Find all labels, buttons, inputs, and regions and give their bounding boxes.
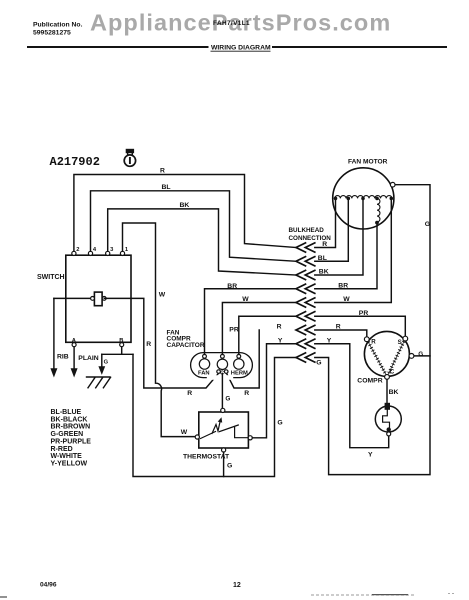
bulkhead connector pin 9 (G) bbox=[296, 353, 315, 362]
wire Y thermostat right to bulkhead pin 8 bbox=[252, 344, 296, 438]
compressor run winding bbox=[368, 342, 386, 374]
footer scan marks bbox=[311, 594, 416, 596]
svg-text:R: R bbox=[146, 341, 151, 348]
svg-text:SWITCH: SWITCH bbox=[37, 274, 65, 281]
bulkhead connector pin 8 (Y) bbox=[296, 339, 315, 348]
capacitor HERM terminal bbox=[234, 359, 244, 369]
bulkhead connector pin 5 (W) bbox=[296, 298, 315, 307]
timer/clock icon bbox=[124, 149, 135, 167]
svg-text:C: C bbox=[390, 369, 395, 376]
wire G branch to compressor shell bbox=[414, 355, 430, 357]
wire BR bulkhead pin 4 to fan motor start winding bbox=[315, 224, 377, 289]
compressor start winding bbox=[388, 341, 404, 374]
capacitor FAN terminal bbox=[199, 359, 209, 369]
compressor terminal S bbox=[403, 336, 408, 341]
wire from terminal B to ground and to G bus bbox=[102, 347, 133, 354]
svg-text:FAN: FAN bbox=[198, 370, 210, 376]
svg-text:FAH7/V1L1: FAH7/V1L1 bbox=[213, 20, 250, 27]
svg-text:12: 12 bbox=[233, 582, 241, 589]
wire R bulkhead pin 1 to fan motor bbox=[315, 198, 336, 247]
thermostat right terminal bbox=[248, 436, 252, 440]
switch terminal 1 bbox=[120, 251, 124, 255]
wire BK from switch terminal 3 to bulkhead pin 3 bbox=[108, 209, 296, 275]
svg-text:A217902: A217902 bbox=[50, 155, 100, 169]
svg-text:R: R bbox=[160, 167, 165, 174]
svg-text:RIB: RIB bbox=[57, 354, 69, 361]
svg-text:HERM: HERM bbox=[231, 370, 248, 376]
svg-text:G: G bbox=[227, 462, 232, 469]
wire PR capacitor HERM to bulkhead pin 6 bbox=[239, 316, 296, 354]
bulkhead connector pin 2 (BL) bbox=[296, 257, 315, 266]
thermostat box bbox=[199, 412, 249, 448]
svg-text:PR: PR bbox=[229, 326, 239, 333]
svg-text:Y-YELLOW: Y-YELLOW bbox=[51, 460, 88, 467]
wire R from switch terminal 2 to bulkhead pin 1 bbox=[74, 175, 296, 252]
bulkhead connector pin 6 (PR) bbox=[296, 312, 315, 321]
wire Y bulkhead pin 8 to overload bbox=[315, 344, 389, 448]
wire BR capacitor FAN to bulkhead pin 4 bbox=[205, 289, 297, 355]
fan motor winding taps bbox=[334, 197, 338, 201]
switch internal line (left stub) bbox=[54, 297, 92, 299]
svg-text:PR-PURPLE: PR-PURPLE bbox=[51, 438, 92, 445]
svg-text:BK: BK bbox=[180, 202, 190, 209]
svg-text:FAN MOTOR: FAN MOTOR bbox=[348, 159, 388, 166]
svg-text:R-RED: R-RED bbox=[51, 446, 73, 453]
svg-text:W-WHITE: W-WHITE bbox=[51, 453, 83, 460]
wire G bulkhead pin 9 to ground bus right bbox=[315, 185, 430, 475]
svg-text:G: G bbox=[425, 221, 430, 228]
fan motor frame terminal bbox=[390, 182, 395, 187]
compressor terminal C bbox=[385, 375, 390, 380]
switch terminal 2 bbox=[72, 251, 76, 255]
compressor terminal R bbox=[364, 337, 369, 342]
svg-text:BL-BLUE: BL-BLUE bbox=[51, 409, 82, 416]
switch internal contact block bbox=[94, 292, 102, 306]
thermostat top terminal bbox=[221, 408, 225, 412]
svg-text:G: G bbox=[277, 419, 282, 426]
wire BL bulkhead pin 2 to fan motor bbox=[315, 198, 349, 261]
svg-text:04/96: 04/96 bbox=[40, 582, 57, 589]
svg-text:G: G bbox=[418, 351, 423, 358]
switch terminal A bbox=[72, 343, 76, 347]
svg-text:BK: BK bbox=[389, 389, 399, 396]
svg-text:COMPR: COMPR bbox=[357, 377, 382, 384]
svg-text:WIRING DIAGRAM: WIRING DIAGRAM bbox=[211, 45, 271, 52]
svg-text:R: R bbox=[244, 390, 249, 397]
header rule bbox=[27, 46, 447, 48]
svg-text:BR-BROWN: BR-BROWN bbox=[51, 424, 91, 431]
svg-text:PLAIN: PLAIN bbox=[78, 355, 98, 362]
svg-text:G: G bbox=[225, 396, 230, 403]
switch terminal B bbox=[120, 343, 124, 347]
thermostat internal switch bbox=[201, 421, 249, 439]
wire R right part of bus up to bulkhead pin 7 bbox=[227, 330, 260, 388]
switch terminal 3 bbox=[106, 251, 110, 255]
wire R bulkhead pin 7 to compressor R bbox=[315, 330, 367, 337]
ground symbol bbox=[87, 377, 111, 388]
fan motor main winding bbox=[335, 196, 392, 199]
thermostat left terminal bbox=[195, 435, 199, 439]
svg-text:R: R bbox=[371, 339, 376, 346]
svg-text:5995281275: 5995281275 bbox=[33, 30, 71, 37]
svg-text:BULKHEAD: BULKHEAD bbox=[289, 227, 325, 234]
wire W bulkhead pin 5 to fan motor bbox=[315, 198, 392, 302]
wire BL from switch terminal 4 to bulkhead pin 2 bbox=[91, 191, 297, 261]
wire BK bulkhead pin 3 to fan motor bbox=[315, 198, 363, 275]
svg-text:R: R bbox=[277, 324, 282, 331]
bulkhead connector pin 1 (R) bbox=[296, 243, 315, 252]
svg-text:CAPACITOR: CAPACITOR bbox=[167, 342, 205, 349]
wire RIB leg bbox=[53, 298, 55, 368]
wire PLAIN leg from terminal A bbox=[73, 347, 75, 369]
svg-text:BR: BR bbox=[227, 283, 237, 290]
compressor shell terminal G bbox=[409, 354, 414, 359]
wire BK compressor C to overload bbox=[386, 379, 388, 403]
bulkhead connector pin 3 (BK) bbox=[296, 270, 315, 279]
compressor bbox=[364, 331, 409, 376]
wire W capacitor C to bulkhead pin 5 bbox=[222, 303, 296, 355]
bulkhead connector pin 4 (BR) bbox=[296, 284, 315, 293]
wire R from switch line to capacitor C and compressor branch bbox=[104, 298, 218, 388]
switch terminal 4 bbox=[88, 251, 92, 255]
svg-text:B: B bbox=[119, 338, 123, 344]
svg-text:G: G bbox=[104, 359, 109, 365]
wire G thermostat bottom to bus bbox=[223, 452, 225, 476]
overload protector bbox=[385, 403, 390, 410]
svg-text:W: W bbox=[159, 292, 166, 299]
fan motor start winding bbox=[377, 198, 380, 222]
capacitor C terminal bbox=[217, 359, 227, 369]
wire PR bulkhead pin 6 to compressor S bbox=[315, 316, 406, 336]
svg-text:R: R bbox=[187, 390, 192, 397]
bulkhead connector pin 7 (R) bbox=[296, 325, 315, 334]
svg-text:Publication No.: Publication No. bbox=[33, 22, 83, 29]
svg-text:G: G bbox=[316, 359, 321, 366]
ground lead arrow bbox=[101, 354, 103, 366]
svg-text:W: W bbox=[181, 429, 188, 436]
svg-text:2: 2 bbox=[76, 247, 79, 253]
switch box bbox=[66, 255, 131, 342]
svg-text:G-GREEN: G-GREEN bbox=[51, 431, 84, 438]
fan motor bbox=[333, 168, 394, 229]
thermostat bottom terminal bbox=[222, 448, 226, 452]
svg-text:W: W bbox=[242, 296, 249, 303]
svg-text:S: S bbox=[398, 339, 402, 346]
capacitor body bbox=[191, 353, 253, 378]
svg-text:Y: Y bbox=[368, 452, 373, 459]
svg-text:Y: Y bbox=[278, 337, 283, 344]
svg-text:BL: BL bbox=[162, 184, 171, 191]
wire W from switch terminal 1 to thermostat (hops over R wire) bbox=[123, 223, 196, 437]
wire G capacitor C to thermostat bbox=[221, 373, 223, 408]
svg-text:BK-BLACK: BK-BLACK bbox=[51, 416, 88, 423]
wire G bottom bus from B to bulkhead pin 9 bbox=[133, 354, 296, 476]
